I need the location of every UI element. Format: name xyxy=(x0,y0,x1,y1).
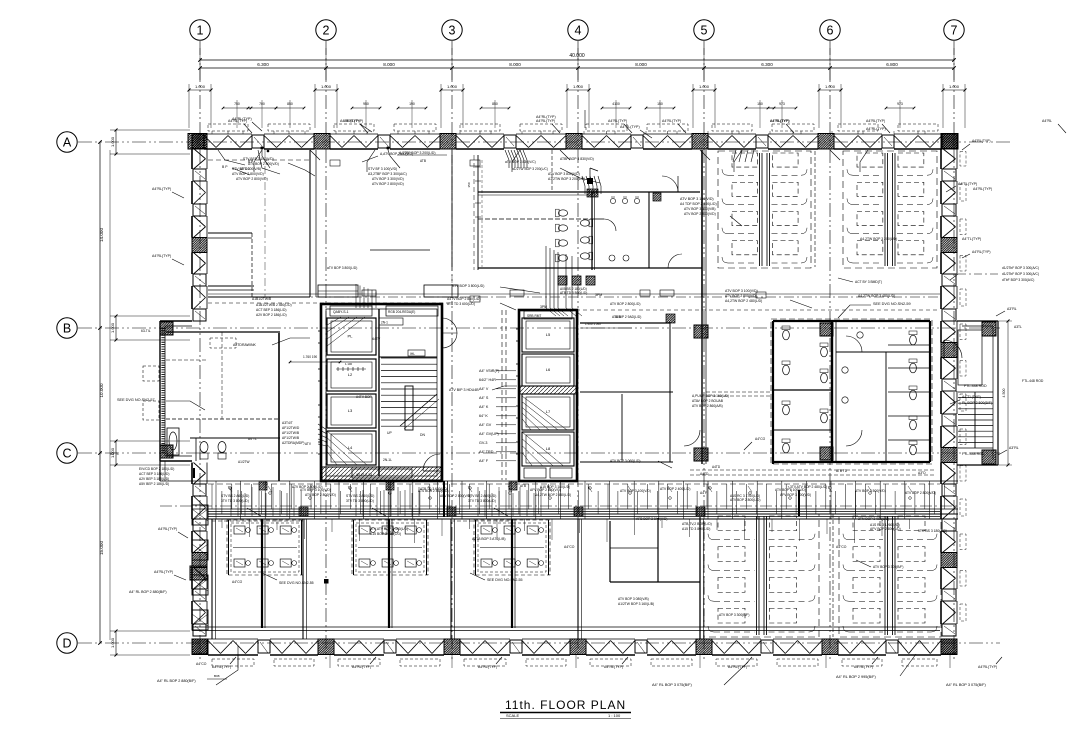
bottom small room walls xyxy=(609,521,611,582)
svg-text:A4"RL(TYP): A4"RL(TYP) xyxy=(866,119,885,123)
svg-text:STV BS 2 A60(L/D): STV BS 2 A60(L/D) xyxy=(468,494,496,498)
svg-text:3TV,ATV BOP 2 400(L/D): 3TV,ATV BOP 2 400(L/D) xyxy=(370,527,408,531)
left wing bathtub xyxy=(167,428,179,455)
svg-text:4: 4 xyxy=(575,24,582,38)
grid line row C xyxy=(78,452,1000,454)
leader lines from top wall xyxy=(254,150,262,172)
grid line row A xyxy=(78,141,1012,143)
svg-text:a1/2TW BOP 3 200(L/C): a1/2TW BOP 3 200(L/C) xyxy=(512,167,548,171)
svg-text:2N-1L: 2N-1L xyxy=(383,458,392,462)
wall dim ticks x478 xyxy=(475,166,481,168)
svg-text:GV-3: GV-3 xyxy=(479,441,487,445)
svg-text:1.000: 1.000 xyxy=(447,84,458,89)
svg-text:FTL-448 ROD: FTL-448 ROD xyxy=(962,452,985,456)
svg-text:DN: DN xyxy=(420,433,425,437)
riser bundle into core1 xyxy=(355,284,357,308)
svg-text:EIV/CD BOP 2 180(L/D): EIV/CD BOP 2 180(L/D) xyxy=(139,467,174,471)
svg-text:ACT BY 3 BMD(T): ACT BY 3 BMD(T) xyxy=(855,280,882,284)
svg-text:A15 BOP 3 180(L/D): A15 BOP 3 180(L/D) xyxy=(540,485,570,489)
svg-text:63-TIL: 63-TIL xyxy=(141,329,151,333)
svg-text:AFV BOP 2 800(L/D): AFV BOP 2 800(L/D) xyxy=(870,527,901,531)
svg-text:1.000: 1.000 xyxy=(110,136,115,147)
wall between offices top xyxy=(814,151,816,267)
svg-text:1.100: 1.100 xyxy=(345,362,352,366)
svg-text:A3"RL: A3"RL xyxy=(1009,446,1019,450)
svg-text:A15 BOP 3 180(L/D): A15 BOP 3 180(L/D) xyxy=(370,532,401,536)
svg-text:15.000: 15.000 xyxy=(99,541,104,555)
grid line column 4 xyxy=(577,41,579,662)
svg-text:3: 3 xyxy=(449,24,456,38)
svg-text:ATB TD 3 B00(L/D): ATB TD 3 B00(L/D) xyxy=(560,291,587,295)
svg-text:3PM: 3PM xyxy=(595,293,602,297)
svg-text:6: 6 xyxy=(827,24,834,38)
svg-text:A4"RL(TYP): A4"RL(TYP) xyxy=(152,187,171,191)
svg-text:ATB,TV,2 BOP(L/D): ATB,TV,2 BOP(L/D) xyxy=(682,522,712,526)
svg-text:ATV BOP 2 800(L/D): ATV BOP 2 800(L/D) xyxy=(610,302,640,306)
svg-text:A4"RL(TYP): A4"RL(TYP) xyxy=(866,127,886,131)
svg-text:A15 TD 3 800(L/D): A15 TD 3 800(L/D) xyxy=(682,527,710,531)
svg-text:ACT BEP 3 186(L/D): ACT BEP 3 186(L/D) xyxy=(139,472,169,476)
svg-text:A4" F: A4" F xyxy=(479,459,489,463)
wall between bottom offices xyxy=(832,514,834,637)
svg-text:A4" RL BOP 2 995(B/F): A4" RL BOP 2 995(B/F) xyxy=(836,675,876,679)
svg-text:ATV BOP 2 800(V/D): ATV BOP 2 800(V/D) xyxy=(684,212,716,216)
svg-text:ATV BOP 3 100(V/B): ATV BOP 3 100(V/B) xyxy=(684,207,716,211)
toilet block main horizontal wall xyxy=(478,191,700,193)
dashed ceiling lines room1 xyxy=(208,159,310,161)
segment dimension line xyxy=(200,67,954,69)
svg-text:B P: B P xyxy=(248,160,254,164)
core1 inner wall xyxy=(378,309,380,476)
leader fan below top wall center xyxy=(505,150,509,168)
svg-text:SEE DVG NO.SN2-55: SEE DVG NO.SN2-55 xyxy=(279,581,314,585)
svg-text:A2V BOP 2 186(L/D): A2V BOP 2 186(L/D) xyxy=(256,313,287,317)
corridor below core3 dashed xyxy=(690,469,935,471)
bottom exterior wall with columns and windows xyxy=(192,639,208,655)
svg-text:ATV BOP 2 800(V/D): ATV BOP 2 800(V/D) xyxy=(236,177,268,181)
grid bubble column 3 xyxy=(442,20,462,40)
svg-text:A4"RL(TYP): A4"RL(TYP) xyxy=(228,119,247,123)
svg-text:3TV TD 3 800(L/D): 3TV TD 3 800(L/D) xyxy=(346,499,374,503)
left dimension line xyxy=(99,142,101,643)
svg-text:ATV BOP 3 100(V/D): ATV BOP 3 100(V/D) xyxy=(680,197,714,201)
svg-text:A4"TL(TYP): A4"TL(TYP) xyxy=(962,395,981,399)
svg-text:A4,2TW BOP 2 480(L/D): A4,2TW BOP 2 480(L/D) xyxy=(725,299,762,303)
grid line column 2 xyxy=(325,41,327,662)
grid line column 6 xyxy=(829,41,831,662)
left exterior wall xyxy=(192,134,207,149)
svg-text:ATV BOP 2 800(L/D): ATV BOP 2 800(L/D) xyxy=(292,485,322,489)
bottom rooms desk clusters xyxy=(227,520,303,575)
dash-dot secondary verticals xyxy=(264,150,266,297)
svg-text:A4TV BOP: A4TV BOP xyxy=(356,395,372,399)
svg-text:ATV: ATV xyxy=(305,442,312,446)
corridor connection verticals xyxy=(215,481,217,519)
svg-text:A0B: A0B xyxy=(615,315,621,319)
svg-text:6.800: 6.800 xyxy=(886,62,898,67)
svg-text:ATB: ATB xyxy=(520,484,526,488)
svg-text:1.000: 1.000 xyxy=(321,84,332,89)
svg-text:A4"CO: A4"CO xyxy=(232,580,243,584)
svg-text:A4"RL(TYP): A4"RL(TYP) xyxy=(158,527,177,531)
svg-text:A4"RL(TYP): A4"RL(TYP) xyxy=(972,250,991,254)
svg-text:UP: UP xyxy=(387,431,392,435)
svg-text:A4"RL(TYP): A4"RL(TYP) xyxy=(854,665,873,669)
svg-text:STV BS 2 A60(L/D): STV BS 2 A60(L/D) xyxy=(346,494,374,498)
svg-text:A4"RL(TYP): A4"RL(TYP) xyxy=(536,119,555,123)
svg-text:5TR BS 3 180(A/B): 5TR BS 3 180(A/B) xyxy=(918,529,947,533)
svg-text:1.000: 1.000 xyxy=(195,84,206,89)
svg-text:ATV BOP 2 800(L/D): ATV BOP 2 800(L/D) xyxy=(730,498,760,502)
svg-text:ATV BOP 2 860(A/B): ATV BOP 2 860(A/B) xyxy=(692,404,723,408)
grid line column 5 xyxy=(703,41,705,662)
core2 door ticks xyxy=(516,328,519,330)
svg-text:A1/2TW BOP 3 160(L/B): A1/2TW BOP 3 160(L/B) xyxy=(618,602,654,606)
svg-text:A4"TL: A4"TL xyxy=(248,437,257,441)
vent symbols top rooms xyxy=(362,290,376,296)
svg-text:A4TD: A4TD xyxy=(700,472,709,476)
svg-text:6.300: 6.300 xyxy=(761,62,773,67)
svg-text:A4"CO: A4"CO xyxy=(564,545,575,549)
svg-text:L2: L2 xyxy=(348,372,353,377)
open office dashed furniture layout xyxy=(704,514,819,637)
flag valve symbol xyxy=(587,178,593,184)
svg-text:2: 2 xyxy=(323,24,330,38)
left wing exterior wall xyxy=(160,320,192,322)
svg-text:3TV TD 3 800(L/D): 3TV TD 3 800(L/D) xyxy=(221,499,249,503)
svg-text:B: B xyxy=(63,322,71,336)
core1 outer walls xyxy=(321,304,442,481)
right tower door arc xyxy=(943,340,945,358)
svg-text:3TN BOP 3 086(L/B): 3TN BOP 3 086(L/B) xyxy=(858,517,889,521)
svg-text:A4"RL(TYP): A4"RL(TYP) xyxy=(344,119,363,123)
core1 double door xyxy=(441,318,443,348)
core1 door ticks xyxy=(318,330,321,332)
core1 PL cell diagonals xyxy=(327,317,365,346)
svg-text:A4TV: A4TV xyxy=(372,337,381,341)
svg-text:A3TL: A3TL xyxy=(1014,325,1022,329)
grid bubble column 4 xyxy=(568,20,588,40)
left wing interior clutter xyxy=(166,359,207,361)
svg-text:1: 1 xyxy=(197,24,204,38)
svg-text:ATV BOP 2 800(V/D): ATV BOP 2 800(V/D) xyxy=(372,182,404,186)
core3 outer dashed boundary xyxy=(771,319,932,464)
svg-text:B08: B08 xyxy=(214,674,220,678)
interior wall x310 xyxy=(309,150,311,297)
svg-text:A4" K: A4" K xyxy=(479,405,489,409)
svg-text:ATV BOP 3 100(V/D): ATV BOP 3 100(V/D) xyxy=(725,289,758,293)
svg-text:L3: L3 xyxy=(348,408,353,413)
leader fans above desk clusters xyxy=(230,487,232,516)
svg-text:D: D xyxy=(62,637,71,651)
svg-text:A1/2TW BOP 3 200(L/D): A1/2TW BOP 3 200(L/D) xyxy=(548,177,585,181)
corridor riser ticks xyxy=(211,484,213,509)
svg-text:ATV BOP 2 800(V/D): ATV BOP 2 800(V/D) xyxy=(305,493,336,497)
extension verticals top dims xyxy=(236,100,238,128)
svg-text:ATV BIP 3 HDU4B: ATV BIP 3 HDU4B xyxy=(449,388,479,392)
svg-text:PL: PL xyxy=(348,334,354,339)
core3 walls xyxy=(773,320,930,322)
svg-text:6.300: 6.300 xyxy=(257,62,269,67)
svg-text:ACT BEP 3 186(L/D): ACT BEP 3 186(L/D) xyxy=(256,308,286,312)
svg-text:AF1/2TW/D: AF1/2TW/D xyxy=(282,426,300,430)
grid bubble column 6 xyxy=(820,20,840,40)
corridor junction blocks xyxy=(299,507,308,516)
svg-text:A4"RL(TYP): A4"RL(TYP) xyxy=(154,570,173,574)
svg-text:ATB TD 3 600(L/D): ATB TD 3 600(L/D) xyxy=(447,302,475,306)
per-column 1.000 dimensions xyxy=(189,89,211,91)
svg-text:64" K: 64" K xyxy=(479,414,488,418)
svg-text:8.000: 8.000 xyxy=(383,62,395,67)
bottom rooms plumbing stacks xyxy=(261,519,263,628)
riser pipes to corridor xyxy=(545,246,547,308)
rooms right of core2 xyxy=(580,322,670,324)
svg-text:14.000: 14.000 xyxy=(99,228,104,242)
open office dashed furniture layout xyxy=(839,514,941,637)
core2 shafts xyxy=(522,318,574,352)
svg-text:A4"RL(TYP): A4"RL(TYP) xyxy=(770,119,789,123)
misc small squares (VAV boxes) xyxy=(470,160,480,166)
corridor wall stub left of core2 xyxy=(443,481,445,517)
svg-text:A4"RL(TYP): A4"RL(TYP) xyxy=(973,187,992,191)
svg-text:A2TB BOP 3 A76(L/B): A2TB BOP 3 A76(L/B) xyxy=(472,537,505,541)
svg-text:A4"CO: A4"CO xyxy=(196,662,207,666)
wall stub second left xyxy=(208,285,254,287)
svg-text:ATV BOP 3 800(L/D): ATV BOP 3 800(L/D) xyxy=(452,284,484,288)
corridor small valve symbols xyxy=(229,487,232,490)
stair center rail xyxy=(405,386,413,430)
core2 outer walls xyxy=(519,310,577,481)
dark utility blocks below toilet xyxy=(558,276,567,285)
right stair tower walls xyxy=(957,320,998,322)
stack into bottom-right room xyxy=(798,490,800,516)
svg-text:A4TD: A4TD xyxy=(712,465,721,469)
svg-text:A4" RL BOP 2 880(B/F): A4" RL BOP 2 880(B/F) xyxy=(157,679,196,683)
svg-text:A4,2TW BOP 3 200(L/D): A4,2TW BOP 3 200(L/D) xyxy=(860,237,897,241)
svg-text:A4"RL(TYP): A4"RL(TYP) xyxy=(978,665,997,669)
right exterior wall xyxy=(941,134,957,149)
svg-text:SRB RMT: SRB RMT xyxy=(527,314,541,318)
svg-text:A4"TL(TYP): A4"TL(TYP) xyxy=(958,182,977,186)
svg-text:aTV BOP 3 800(L/D): aTV BOP 3 800(L/D) xyxy=(327,266,357,270)
svg-text:1.000: 1.000 xyxy=(110,322,115,333)
svg-text:FTL-448 ROD: FTL-448 ROD xyxy=(1022,379,1044,383)
core1 lower door arc xyxy=(423,470,440,472)
small service room x430 xyxy=(424,285,458,297)
building corner columns xyxy=(192,134,207,149)
svg-text:B P: B P xyxy=(222,165,228,169)
stair break line xyxy=(400,394,437,426)
grid bubble column 5 xyxy=(694,20,714,40)
right stair hatched blocks xyxy=(982,322,996,336)
svg-text:1.000: 1.000 xyxy=(110,637,115,648)
svg-text:L7: L7 xyxy=(546,409,551,414)
core3 stall partitions xyxy=(888,344,930,346)
svg-text:A4"CO: A4"CO xyxy=(836,545,847,549)
svg-text:1.000: 1.000 xyxy=(825,84,836,89)
svg-text:8.000: 8.000 xyxy=(509,62,521,67)
duct shafts near grid 2 xyxy=(318,285,358,297)
grid bubble row A xyxy=(57,132,77,152)
svg-text:1.760 190: 1.760 190 xyxy=(303,355,317,359)
svg-text:A4" S: A4" S xyxy=(479,396,489,400)
top exterior wall with columns and windows xyxy=(188,134,204,150)
corridor left of core3 dashed xyxy=(706,391,771,393)
svg-text:STV BS 2 A60(L/D): STV BS 2 A60(L/D) xyxy=(221,494,249,498)
upper corridor boundary xyxy=(208,296,940,298)
svg-text:A4"CO: A4"CO xyxy=(755,437,766,441)
grid line row B xyxy=(78,327,1000,329)
left wing room walls xyxy=(166,331,280,333)
core1 vestibule label boxes xyxy=(379,318,403,325)
svg-text:A3,2TBF BOP 3 300(A/C): A3,2TBF BOP 3 300(A/C) xyxy=(368,172,407,176)
svg-text:QABY-S-1: QABY-S-1 xyxy=(333,310,349,314)
svg-text:3TV,ATV BOP 2 480(L/D): 3TV,ATV BOP 2 480(L/D) xyxy=(790,485,827,489)
svg-text:SEE DVG NO.SN2-55: SEE DVG NO.SN2-55 xyxy=(487,578,523,582)
svg-text:A4"RL(TYP): A4"RL(TYP) xyxy=(972,139,991,143)
right stair treads xyxy=(958,391,993,393)
grid bubble column 2 xyxy=(316,20,336,40)
svg-text:A,PUMP BOP 3 160(L/D): A,PUMP BOP 3 160(L/D) xyxy=(692,394,729,398)
core1 top label boxes xyxy=(330,306,372,316)
svg-text:1 : 100: 1 : 100 xyxy=(608,713,621,718)
grid line column 1 xyxy=(199,41,201,662)
svg-text:A4" V: A4" V xyxy=(479,387,489,391)
svg-text:ATB: ATB xyxy=(420,159,426,163)
svg-text:A4" RL BOP 3 075(B/F): A4" RL BOP 3 075(B/F) xyxy=(946,683,986,687)
grid bubble row D xyxy=(57,633,77,653)
svg-text:ATV BOP 2 800(V/D): ATV BOP 2 800(V/D) xyxy=(905,491,936,495)
L2 dim ticks xyxy=(337,367,339,371)
svg-text:10.000: 10.000 xyxy=(99,383,104,397)
svg-text:A4" RL BOP 2 880(B/F): A4" RL BOP 2 880(B/F) xyxy=(129,590,167,594)
svg-text:A4"RL(TYP): A4"RL(TYP) xyxy=(608,119,627,123)
open office dashed furniture layout xyxy=(718,151,811,268)
svg-text:ATV BOP 3 060(L/D): ATV BOP 3 060(L/D) xyxy=(610,459,640,463)
svg-text:ATBF BOP 4 830(V/D): ATBF BOP 4 830(V/D) xyxy=(560,157,594,161)
svg-text:IHL: IHL xyxy=(410,352,415,356)
grid line column 7 xyxy=(953,41,955,662)
svg-text:A2TDRA(MDP): A2TDRA(MDP) xyxy=(282,441,305,445)
svg-text:A4 TDF BOP 2 800(L/D): A4 TDF BOP 2 800(L/D) xyxy=(680,202,717,206)
central corridor walls and lines xyxy=(160,480,958,482)
left wing toilet fixtures xyxy=(200,442,208,453)
svg-text:ATV BOP 3 300(B/F): ATV BOP 3 300(B/F) xyxy=(873,565,903,569)
grid line row D xyxy=(78,642,1000,644)
upper corridor strengthen xyxy=(208,293,940,295)
room wall left upper xyxy=(208,296,310,298)
svg-text:2N-1: 2N-1 xyxy=(381,321,388,325)
urinal row xyxy=(610,198,615,203)
left wing outside window symbols xyxy=(143,366,159,381)
overall dimension line 40.000 xyxy=(200,59,954,61)
svg-text:A4"RL(TYP): A4"RL(TYP) xyxy=(604,665,623,669)
svg-text:A4,2TW BOP 3 480(L/D): A4,2TW BOP 3 480(L/D) xyxy=(858,294,895,298)
core2 hatch band xyxy=(520,386,576,394)
svg-text:ATV BOP 3 300(V/D): ATV BOP 3 300(V/D) xyxy=(372,177,404,181)
bottom rooms inner south wall xyxy=(192,626,940,628)
toilet center wall vertical xyxy=(591,192,593,270)
svg-text:40.000: 40.000 xyxy=(569,53,585,59)
svg-text:AF1/2TW/B: AF1/2TW/B xyxy=(282,436,300,440)
core2 L7 diagonal hatch xyxy=(521,424,523,430)
interior wall grid3 upper xyxy=(451,150,453,250)
svg-text:ATAV BOP 2 BOUAB: ATAV BOP 2 BOUAB xyxy=(692,399,724,403)
svg-text:A4"RL(TYP): A4"RL(TYP) xyxy=(662,119,681,123)
svg-text:A4" GV(UP): A4" GV(UP) xyxy=(479,432,499,436)
toilet wc fixtures right column xyxy=(580,220,589,226)
svg-text:AS-IS-2-S4: AS-IS-2-S4 xyxy=(356,473,372,477)
bottom room extra dashes xyxy=(212,520,303,522)
grid bubble column 1 xyxy=(190,20,210,40)
svg-text:A4"RL(TYP): A4"RL(TYP) xyxy=(352,665,371,669)
svg-text:L5: L5 xyxy=(546,332,551,337)
svg-text:350: 350 xyxy=(467,182,471,187)
svg-text:SCALE: SCALE xyxy=(506,713,519,718)
right stair tower dimension line xyxy=(1007,321,1009,465)
svg-text:A3"TL: A3"TL xyxy=(110,452,119,456)
core3 hatched columns xyxy=(820,323,833,336)
svg-text:A3T4/T: A3T4/T xyxy=(282,421,293,425)
lobby dashed wall xyxy=(501,310,503,480)
leaders right rooms top xyxy=(733,150,736,162)
svg-text:A2V BEP 3 188(L/D): A2V BEP 3 188(L/D) xyxy=(139,477,169,481)
svg-text:A4"TL(TYP): A4"TL(TYP) xyxy=(962,237,981,241)
svg-text:d1/2TbF BOP 3 300(A/C): d1/2TbF BOP 3 300(A/C) xyxy=(1002,266,1039,270)
svg-text:5: 5 xyxy=(701,24,708,38)
toilet block left boundary wall xyxy=(477,155,479,270)
svg-text:A4" RL BOP 3 075(B/F): A4" RL BOP 3 075(B/F) xyxy=(652,683,692,687)
svg-text:ATV BOP 3 100(V/D): ATV BOP 3 100(V/D) xyxy=(620,489,651,493)
row A upper-left leaders xyxy=(218,150,245,165)
svg-text:A4,2TW BOP 2 450(L/D): A4,2TW BOP 2 450(L/D) xyxy=(535,493,571,497)
core3 door arcs xyxy=(846,336,862,352)
svg-text:A3"D: A3"D xyxy=(918,471,926,475)
svg-text:1.000: 1.000 xyxy=(699,84,710,89)
svg-text:A4"RL(TYP): A4"RL(TYP) xyxy=(620,125,640,129)
grid bubble row C xyxy=(57,443,77,463)
svg-text:A,2TBF BOP 3 200(L/D): A,2TBF BOP 3 200(L/D) xyxy=(399,151,436,155)
toilet wc fixtures left column xyxy=(558,210,567,216)
grid line column 3 xyxy=(451,41,453,662)
svg-text:ATV BOP 3 300(B/F): ATV BOP 3 300(B/F) xyxy=(719,613,749,617)
left wing wall stipple xyxy=(161,328,164,454)
svg-text:A1/2TW: A1/2TW xyxy=(238,460,250,464)
svg-text:STV BF 3 100(V/D): STV BF 3 100(V/D) xyxy=(368,167,397,171)
toilet right rooms walls xyxy=(648,192,650,268)
svg-text:7: 7 xyxy=(951,24,958,38)
svg-text:dTbF BOP 3 300(A/C): dTbF BOP 3 300(A/C) xyxy=(1002,278,1034,282)
corridor annotation stubs below xyxy=(221,519,223,528)
core1 stair treads xyxy=(381,357,437,359)
svg-text:RGB 204-REDA(E): RGB 204-REDA(E) xyxy=(388,310,415,314)
svg-text:11th. FLOOR PLAN: 11th. FLOOR PLAN xyxy=(505,698,626,712)
corridor wall left of core3 xyxy=(701,297,703,464)
svg-text:SEE DVG NO.SN2-57: SEE DVG NO.SN2-57 xyxy=(117,398,155,402)
svg-text:A4"RL: A4"RL xyxy=(1042,119,1052,123)
svg-text:AFB BOP 3 0A0(V/D): AFB BOP 3 0A0(V/D) xyxy=(636,517,667,521)
svg-text:AF1/2TW/B: AF1/2TW/B xyxy=(282,431,300,435)
core3 wc fixtures xyxy=(783,330,790,340)
svg-text:4.500: 4.500 xyxy=(1002,389,1006,398)
svg-text:3PM: 3PM xyxy=(540,305,547,309)
bottom rooms partition walls xyxy=(211,519,213,639)
svg-text:A: A xyxy=(63,136,72,150)
room edge line at grid3 xyxy=(451,155,453,267)
svg-text:1.500 1.350: 1.500 1.350 xyxy=(585,322,601,326)
bottom wall extension ticks xyxy=(237,655,239,668)
svg-text:A3"CO: A3"CO xyxy=(240,167,250,171)
